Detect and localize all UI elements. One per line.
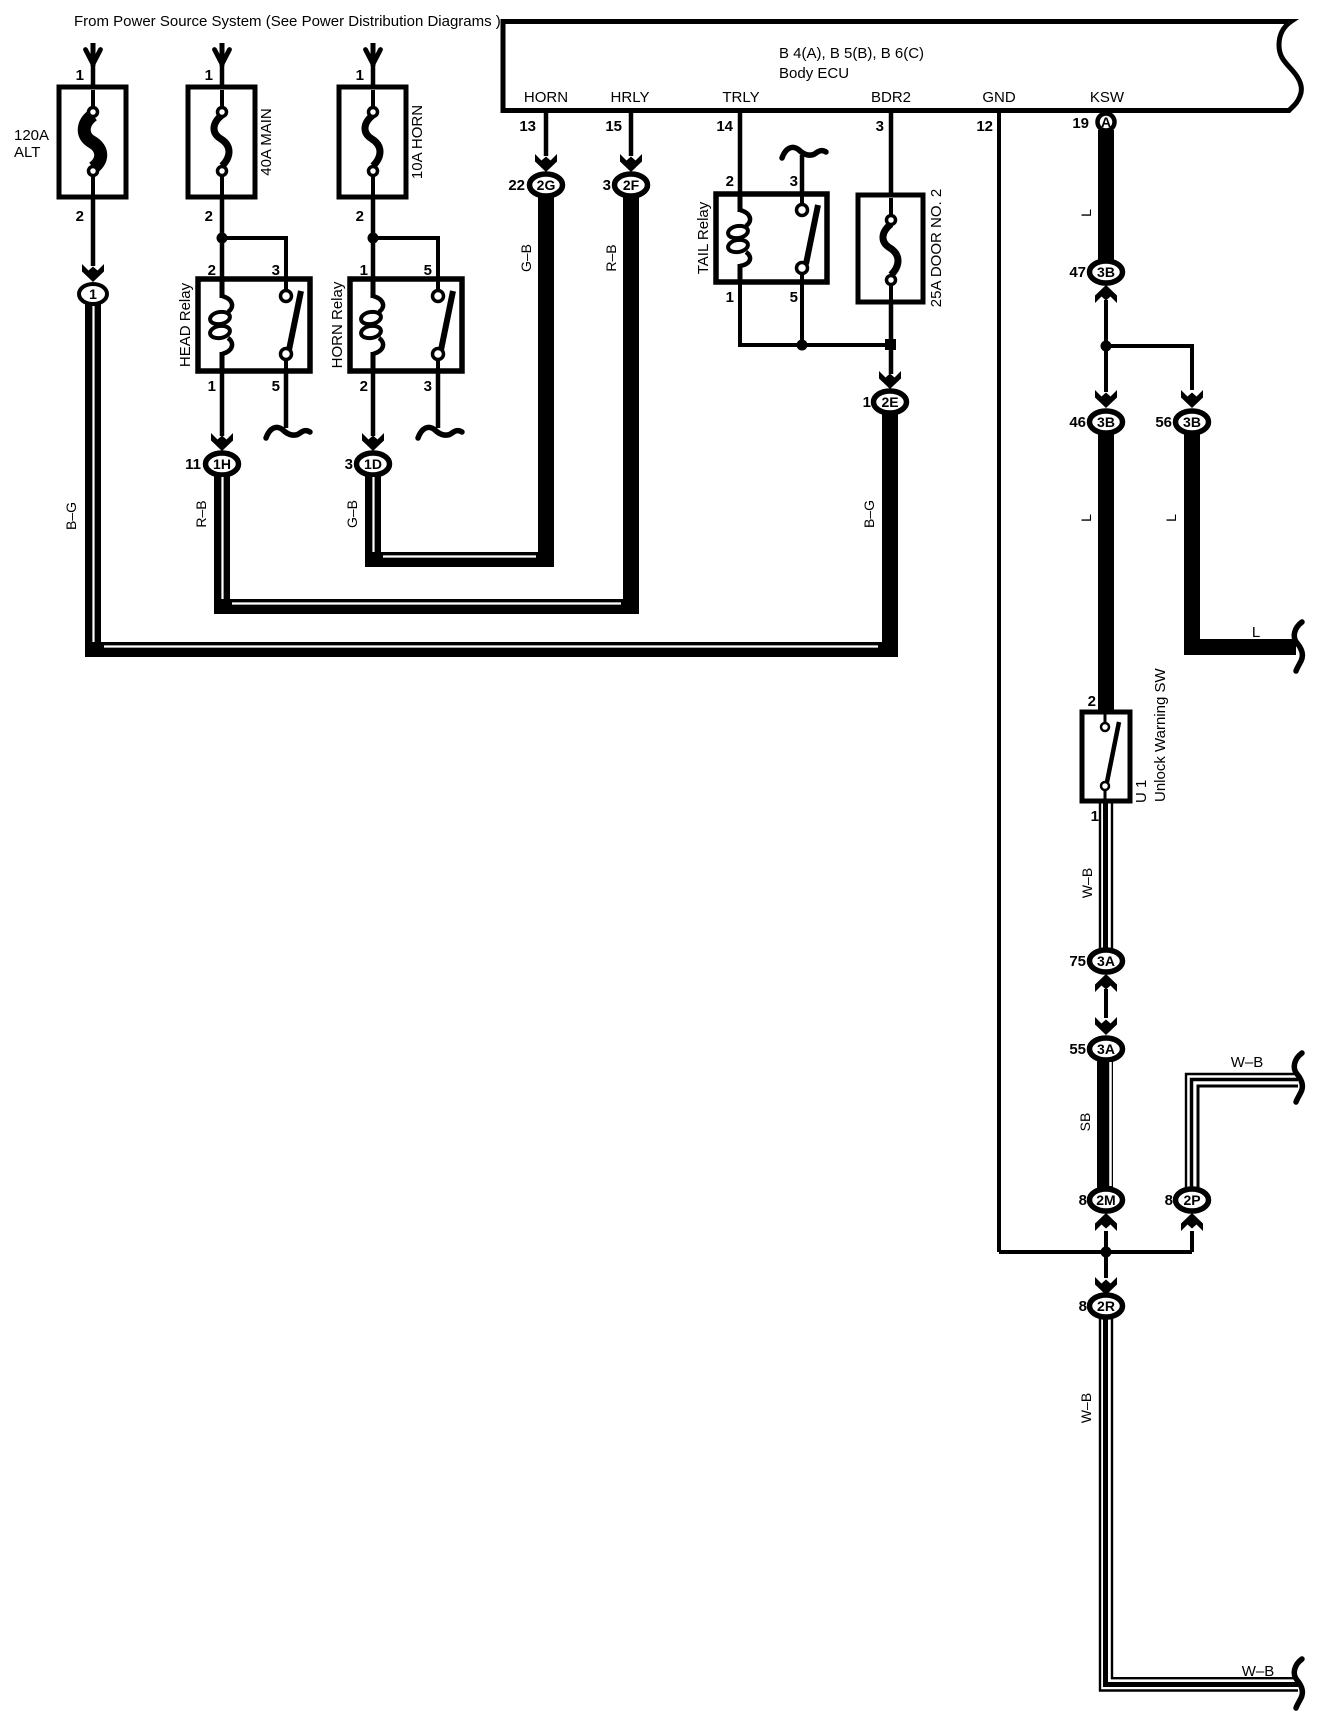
svg-text:19: 19	[1072, 115, 1089, 132]
svg-text:G–B: G–B	[518, 244, 534, 272]
svg-text:1: 1	[356, 67, 364, 84]
svg-text:HORN: HORN	[524, 89, 568, 106]
svg-text:15: 15	[605, 118, 622, 135]
torn end squiggle	[266, 427, 310, 438]
svg-text:5: 5	[272, 378, 280, 395]
wire between 3A connectors	[1104, 989, 1108, 1018]
arrow down into 55 3A	[1095, 1017, 1117, 1035]
svg-text:2: 2	[726, 173, 734, 190]
svg-text:11: 11	[185, 456, 201, 473]
svg-text:HEAD Relay: HEAD Relay	[177, 282, 194, 367]
svg-text:BDR2: BDR2	[871, 89, 911, 106]
svg-text:120A: 120A	[14, 127, 49, 144]
wire fuse2 to HEAD relay	[220, 197, 225, 279]
node: dot at pin5 junction	[797, 340, 808, 351]
torn end squiggle bottom	[1294, 1659, 1302, 1708]
fuse 120A ALT	[59, 87, 126, 197]
wire HORN pin3 to open end	[436, 371, 441, 428]
svg-text:3: 3	[345, 456, 353, 473]
hollow wire W-B from U1 to 75 3A	[1100, 803, 1112, 950]
fuse 25A DOOR NO.2	[858, 195, 923, 302]
wire below fuse to junction	[889, 302, 894, 374]
torn end squiggle	[418, 427, 462, 438]
svg-text:A: A	[1101, 114, 1111, 130]
thick wire L below 46 3B to U1	[1098, 433, 1114, 712]
svg-text:1: 1	[726, 289, 734, 306]
arrow into 46 3B	[1095, 390, 1117, 408]
svg-text:TAIL Relay: TAIL Relay	[695, 201, 712, 274]
connector 2M	[1090, 1189, 1123, 1211]
thick wire L below A	[1098, 130, 1114, 260]
thick wire G-B below 2G	[538, 196, 554, 566]
arrow into 2G	[535, 154, 557, 172]
wire up to 2P arrow	[1190, 1231, 1194, 1252]
svg-text:B–G: B–G	[861, 500, 877, 528]
wire fuse3 to HORN relay	[371, 197, 376, 279]
wire TAIL pin1 down and right	[740, 282, 890, 345]
svg-text:1: 1	[205, 67, 213, 84]
connector 2P	[1176, 1189, 1209, 1211]
connector 47 3B	[1090, 261, 1123, 283]
connector 75 3A	[1090, 950, 1123, 972]
svg-text:2: 2	[76, 208, 84, 225]
svg-text:2: 2	[356, 208, 364, 225]
torn end squiggle	[1294, 1053, 1302, 1102]
fuse 120A ALT entry arrow	[86, 43, 101, 66]
node: junction below 40A MAIN	[217, 233, 228, 244]
hollow wire W-B from 2P up and right to torn end	[1186, 1074, 1298, 1195]
wire ECU BDR2 pin down to fuse	[889, 113, 894, 219]
thick wire R-B below 2F	[623, 196, 639, 613]
svg-text:1: 1	[863, 394, 871, 411]
svg-text:2: 2	[360, 378, 368, 395]
connector A on ECU KSW pin	[1098, 114, 1115, 131]
wire from 2M arrow down to ground bus	[1104, 1231, 1108, 1252]
svg-text:2: 2	[205, 208, 213, 225]
svg-text:W–B: W–B	[1078, 1393, 1094, 1423]
hollow wire B-G from connector 1 down	[85, 304, 102, 657]
connector 2G	[530, 174, 563, 196]
arrow into 1H	[211, 433, 233, 451]
thick wire B-G below 2E	[882, 413, 898, 657]
connector 2F	[615, 174, 648, 196]
hollow wire G-B from 1D down	[365, 475, 382, 567]
ground bus horizontal	[999, 1250, 1192, 1254]
svg-text:2R: 2R	[1097, 1298, 1115, 1314]
svg-text:2M: 2M	[1096, 1192, 1115, 1208]
arrow into 2E	[879, 371, 901, 389]
svg-text:46: 46	[1069, 414, 1086, 431]
node: junction dot on ground bus	[1101, 1247, 1112, 1258]
hollow wire W-B from 2R down and right to torn end	[1100, 1310, 1298, 1691]
svg-text:1D: 1D	[364, 456, 382, 472]
svg-text:3: 3	[876, 118, 884, 135]
svg-text:8: 8	[1079, 1192, 1087, 1209]
svg-text:55: 55	[1069, 1041, 1086, 1058]
arrow into 56 3B	[1181, 390, 1203, 408]
svg-text:L: L	[1163, 514, 1179, 522]
fuse 40A MAIN entry arrow	[215, 43, 230, 66]
torn end squiggle above TAIL pin 3	[782, 147, 826, 158]
hollow horizontal R-B run to 2F wire	[214, 604, 639, 607]
connector 46 3B	[1090, 411, 1123, 433]
wire	[91, 62, 96, 90]
svg-text:2F: 2F	[623, 177, 640, 193]
wire HORN pin2 to 1D	[371, 371, 376, 436]
svg-text:3: 3	[603, 177, 611, 194]
svg-text:HORN Relay: HORN Relay	[329, 281, 346, 368]
arrow up into 75 3A	[1095, 974, 1117, 992]
wire ECU TRLY pin to TAIL relay	[738, 113, 743, 194]
svg-text:8: 8	[1165, 1192, 1173, 1209]
svg-text:Body ECU: Body ECU	[779, 65, 849, 82]
connector 2E	[874, 391, 907, 413]
connector 2R	[1090, 1295, 1123, 1317]
fuse 10A HORN	[339, 87, 406, 197]
svg-text:3A: 3A	[1097, 1041, 1115, 1057]
wire TAIL pin5 down	[800, 282, 804, 345]
svg-text:13: 13	[519, 118, 536, 135]
connector 1H	[206, 453, 239, 475]
svg-text:G–B: G–B	[344, 500, 360, 528]
svg-text:2P: 2P	[1183, 1192, 1200, 1208]
arrow up into 2P	[1181, 1213, 1203, 1231]
svg-text:W–B: W–B	[1242, 1663, 1275, 1680]
svg-text:L: L	[1078, 514, 1094, 522]
node: junction of TAIL pin1 wire and BDR2 wire	[885, 339, 896, 350]
svg-text:L: L	[1078, 209, 1094, 217]
wire to connector 1	[91, 197, 96, 266]
svg-text:SB: SB	[1077, 1113, 1093, 1132]
wire branch to HEAD relay pin 3	[222, 238, 286, 279]
svg-text:HRLY: HRLY	[611, 89, 650, 106]
svg-text:2E: 2E	[881, 394, 898, 410]
wire down from 47 3B to junction	[1104, 300, 1108, 346]
svg-text:GND: GND	[982, 89, 1016, 106]
wire branch right to 56 3B	[1106, 346, 1192, 390]
arrow up into 2M	[1095, 1213, 1117, 1231]
svg-text:W–B: W–B	[1079, 868, 1095, 898]
svg-text:1: 1	[76, 67, 84, 84]
svg-text:2: 2	[1088, 693, 1096, 710]
svg-text:3B: 3B	[1183, 414, 1201, 430]
hollow horizontal B-G run to 2E wire	[85, 647, 896, 650]
svg-text:75: 75	[1069, 953, 1086, 970]
svg-text:Unlock Warning SW: Unlock Warning SW	[1152, 668, 1169, 802]
svg-text:47: 47	[1069, 264, 1086, 281]
node: junction dot	[1101, 341, 1112, 352]
svg-text:5: 5	[790, 289, 798, 306]
hollow wire R-B from 1H down	[214, 475, 231, 614]
svg-text:25A DOOR NO. 2: 25A DOOR NO. 2	[928, 189, 945, 307]
svg-text:56: 56	[1155, 414, 1172, 431]
hollow horizontal G-B run to 2G wire	[365, 557, 554, 560]
connector 55 3A	[1090, 1038, 1123, 1060]
svg-text:14: 14	[716, 118, 733, 135]
wire down from junction	[1104, 1252, 1108, 1278]
svg-text:R–B: R–B	[193, 500, 209, 527]
wire SB from 55 3A to 2M	[1105, 1060, 1111, 1188]
thick wire L below 56 3B to right torn end	[1192, 433, 1296, 647]
torn end squiggle	[1294, 622, 1302, 671]
svg-text:U 1: U 1	[1133, 780, 1150, 803]
svg-text:From Power Source System (See: From Power Source System (See Power Dist…	[74, 13, 501, 30]
arrow into 1D	[362, 433, 384, 451]
node: junction below 10A HORN	[368, 233, 379, 244]
svg-text:22: 22	[508, 177, 525, 194]
svg-text:W–B: W–B	[1231, 1054, 1264, 1071]
wire branch to HORN relay pin 5	[373, 238, 438, 279]
svg-text:8: 8	[1079, 1298, 1087, 1315]
connector 56 3B	[1176, 411, 1209, 433]
svg-text:1: 1	[1091, 808, 1099, 825]
svg-text:L: L	[1252, 624, 1260, 641]
svg-text:10A HORN: 10A HORN	[409, 105, 426, 179]
svg-text:TRLY: TRLY	[722, 89, 759, 106]
HORN Relay	[329, 279, 462, 371]
svg-text:R–B: R–B	[603, 244, 619, 271]
wire TAIL pin3	[800, 155, 805, 194]
wire down to 46 3B	[1104, 346, 1108, 392]
svg-text:1H: 1H	[213, 456, 231, 472]
svg-text:1: 1	[208, 378, 216, 395]
HEAD Relay	[177, 279, 310, 371]
wire ECU GND pin down (long trunk)	[997, 113, 1001, 1252]
switch U1 Unlock Warning SW	[1082, 712, 1130, 801]
fuse 40A MAIN	[188, 87, 255, 197]
svg-text:3: 3	[424, 378, 432, 395]
svg-text:12: 12	[976, 118, 993, 135]
wire ECU HORN pin to 2G	[544, 113, 549, 156]
fuse 10A HORN entry arrow	[366, 43, 381, 66]
connector 1D	[357, 453, 390, 475]
svg-text:3B: 3B	[1097, 414, 1115, 430]
connector 1	[79, 284, 107, 304]
svg-text:2G: 2G	[537, 177, 556, 193]
arrow down into 2R	[1095, 1277, 1117, 1295]
svg-text:ALT: ALT	[14, 144, 40, 161]
svg-text:3A: 3A	[1097, 953, 1115, 969]
TAIL Relay	[695, 194, 827, 282]
svg-text:1: 1	[89, 286, 97, 302]
arrow up into 47 3B	[1095, 285, 1117, 303]
wire ECU HRLY pin to 2F	[629, 113, 634, 156]
svg-text:40A MAIN: 40A MAIN	[258, 108, 275, 176]
wire HEAD pin1 to 1H	[220, 371, 225, 436]
wire HEAD pin5 to open end	[284, 371, 289, 428]
Body ECU box B4(A) B5(B) B6(C)	[503, 22, 1301, 111]
svg-text:KSW: KSW	[1090, 89, 1125, 106]
arrow into 2F	[620, 154, 642, 172]
svg-text:B–G: B–G	[63, 502, 79, 530]
svg-text:3: 3	[790, 173, 798, 190]
arrow into connector 1	[82, 264, 104, 282]
svg-text:B 4(A), B 5(B), B 6(C): B 4(A), B 5(B), B 6(C)	[779, 45, 924, 62]
svg-text:3B: 3B	[1097, 264, 1115, 280]
